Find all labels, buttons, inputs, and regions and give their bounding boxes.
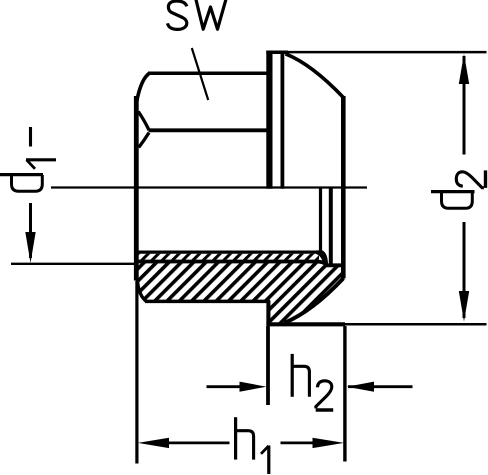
extension line left xyxy=(135,281,138,464)
d1 extension line (thread major diameter) xyxy=(11,263,134,265)
upper sphere curve xyxy=(286,54,344,98)
bore line (thick) xyxy=(137,251,318,254)
d1 arrowhead (down) xyxy=(25,232,35,263)
d2 label subscript 2 (rotated, drawn) xyxy=(456,170,485,188)
h2 dimension line left segment xyxy=(207,385,243,388)
extension line right xyxy=(343,326,346,462)
major thread line + countersink bottom xyxy=(138,262,345,266)
hex bottom face (section) xyxy=(145,300,270,304)
d2 label (rotated, drawn) xyxy=(431,192,475,209)
h1 label (drawn) xyxy=(236,417,269,474)
d2 dimension line upper segment xyxy=(463,56,466,155)
h2 arrowhead (right) xyxy=(240,382,267,392)
hex left edge xyxy=(134,96,139,281)
h2 label (drawn) xyxy=(292,354,333,410)
h1 arrowhead (left) xyxy=(138,438,169,448)
thread zone dash band xyxy=(138,254,319,260)
SW leader line xyxy=(192,48,208,100)
bore chamfer curve xyxy=(137,280,146,302)
SW label (drawn glyphs) xyxy=(168,0,227,29)
collar thin vertical xyxy=(280,51,284,189)
d2 arrowhead (up) xyxy=(459,54,469,84)
lower sphere curve xyxy=(285,278,344,323)
d2 arrowhead (down) xyxy=(459,291,469,322)
collar bottom face xyxy=(266,322,345,326)
top-left corner arc xyxy=(137,73,150,101)
hex chamfer arc upper xyxy=(138,112,149,131)
hex top edge xyxy=(148,71,270,75)
collar top edge xyxy=(266,50,288,54)
d1 label (rotated, drawn) xyxy=(0,160,56,191)
d2 extension line top xyxy=(288,51,487,54)
h1 dimension line right segment xyxy=(281,441,315,444)
collar right edge xyxy=(341,96,346,279)
hex chamfer arc lower xyxy=(139,133,149,148)
collar junction vertical (thick) xyxy=(266,51,272,189)
d2 extension line bottom xyxy=(345,323,487,326)
hex face line xyxy=(149,128,271,132)
extension line middle xyxy=(266,326,270,405)
countersink vertical 1 xyxy=(319,187,322,254)
bore corner curve xyxy=(316,250,328,264)
d1 dimension line lower segment xyxy=(29,203,32,258)
centerline xyxy=(51,186,367,188)
h1 dimension line left segment xyxy=(167,441,230,444)
h1 arrowhead (right) xyxy=(313,438,345,448)
countersink vertical 2 xyxy=(329,187,333,265)
hatched section area (main) xyxy=(137,260,344,323)
h2 dimension line right segment xyxy=(348,385,413,388)
h2 arrowhead (left) xyxy=(347,382,374,392)
step vertical xyxy=(266,301,270,326)
d2 dimension line lower segment xyxy=(463,222,466,318)
d1 dimension line upper segment xyxy=(29,127,32,147)
